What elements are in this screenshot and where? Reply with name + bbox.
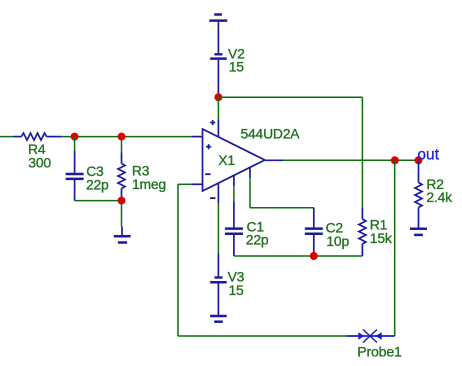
wire feedback bottom rail xyxy=(178,335,347,337)
wire C1 top xyxy=(233,186,235,201)
wire right vertical from top rail to R1 xyxy=(361,97,363,207)
resistor R2 xyxy=(415,160,422,229)
battery V2 xyxy=(210,21,227,98)
node junction dot D xyxy=(310,252,318,260)
node junction dot C xyxy=(118,197,126,205)
resistor R3 xyxy=(118,153,125,201)
svg-text:out: out xyxy=(417,146,439,163)
op-amp +input plus sign xyxy=(206,144,211,149)
wire feedback left vertical xyxy=(177,184,179,336)
wire top rail xyxy=(218,96,362,98)
op-amp U1 X1 xyxy=(191,120,283,204)
node junction dot B xyxy=(118,133,126,141)
wire C2 branch horizontal xyxy=(250,207,314,209)
ground G1 top xyxy=(209,15,227,21)
svg-text:10p: 10p xyxy=(326,233,349,249)
wire C3 top xyxy=(74,137,76,151)
resistor R4 xyxy=(14,133,62,140)
battery V3 xyxy=(210,254,227,317)
capacitor C3 xyxy=(66,151,84,201)
svg-text:15k: 15k xyxy=(370,230,392,246)
probe Probe1 xyxy=(347,330,395,343)
ground G2 xyxy=(410,229,427,235)
wire bottom rail left xyxy=(75,200,122,202)
node junction dot A xyxy=(71,133,79,141)
wire V- to V3 xyxy=(217,203,219,254)
svg-text:Probe1: Probe1 xyxy=(357,345,402,361)
node junction dot V+ xyxy=(214,93,222,101)
wire input left segment xyxy=(0,136,14,138)
wire mid rail xyxy=(234,255,363,257)
capacitor C1 xyxy=(225,202,243,257)
svg-text:15: 15 xyxy=(229,282,245,298)
wire V+ to op-amp xyxy=(217,97,219,119)
node junction dot E xyxy=(391,156,399,164)
node junction dot out xyxy=(415,156,423,164)
op-amp -input minus sign xyxy=(205,173,210,175)
svg-text:300: 300 xyxy=(28,155,51,171)
svg-text:22p: 22p xyxy=(246,232,269,248)
ground G4 xyxy=(114,226,131,242)
svg-text:X1: X1 xyxy=(218,152,235,168)
wire input node row xyxy=(62,136,192,138)
ground G3 xyxy=(210,316,227,322)
wire -input feedback left xyxy=(178,183,191,185)
wire C2 branch vertical from op-amp xyxy=(249,178,251,208)
svg-text:15: 15 xyxy=(229,58,245,74)
svg-text:2.4k: 2.4k xyxy=(426,189,452,205)
op-amp V- minus sign xyxy=(210,197,215,199)
op-amp V+ plus sign xyxy=(210,120,215,125)
wire to ground G4 xyxy=(121,201,123,227)
capacitor C2 xyxy=(305,208,323,256)
svg-text:544UD2A: 544UD2A xyxy=(241,125,301,141)
resistor R1 xyxy=(359,208,366,257)
wire R3 top xyxy=(121,137,123,153)
wire output to probe vertical xyxy=(394,160,396,336)
wire output row xyxy=(283,159,419,161)
svg-text:1meg: 1meg xyxy=(132,176,166,192)
svg-text:22p: 22p xyxy=(86,176,109,192)
